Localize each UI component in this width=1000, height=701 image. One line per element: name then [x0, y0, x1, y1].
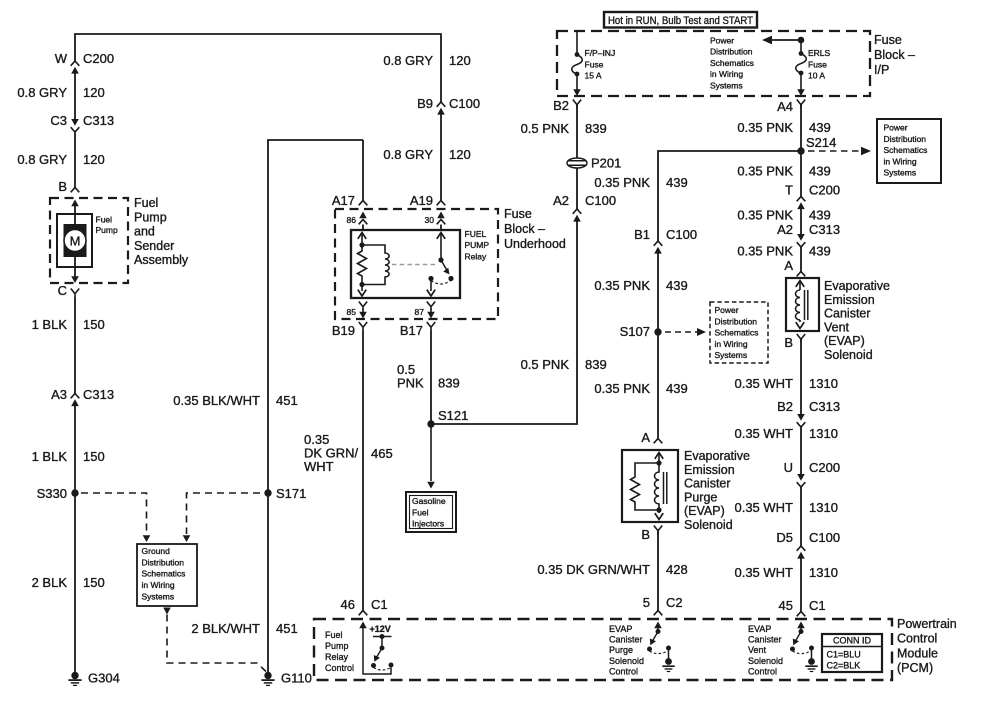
- wire 0.35 WHT 1310 (3): [800, 487, 802, 546]
- vent solenoid coil winding: [796, 290, 801, 320]
- wire into fuel pump motor: [74, 206, 76, 226]
- PCM pin 46 wire to switch: [363, 628, 391, 674]
- relay coil pin 85 arrow: [358, 285, 366, 297]
- svg-text:C3: C3: [50, 113, 67, 128]
- svg-text:10 A: 10 A: [808, 71, 825, 81]
- S214 power distribution text: [884, 123, 928, 178]
- svg-text:CONN ID: CONN ID: [833, 636, 872, 646]
- PCM EVAP purge control text: [609, 624, 644, 676]
- svg-text:Fuse: Fuse: [504, 207, 532, 221]
- svg-text:B2: B2: [553, 98, 569, 113]
- wire 0.8 GRY circuit 120 upper: [74, 73, 76, 121]
- vent solenoid core bars: [805, 290, 808, 320]
- svg-text:A19: A19: [410, 193, 433, 208]
- relay switch travel dashed arc: [431, 281, 451, 285]
- label S107: [620, 324, 650, 339]
- splice S107: [654, 328, 661, 335]
- svg-text:0.35 PNK: 0.35 PNK: [594, 381, 650, 396]
- svg-text:1310: 1310: [809, 426, 838, 441]
- fuel pump and sender assembly title: [134, 196, 189, 267]
- relay switch contact to 87: [428, 276, 433, 281]
- arrow into ground distribution box (left): [143, 535, 151, 542]
- wire 30 to relay: [440, 225, 442, 231]
- connector C313 (B2): [797, 414, 806, 427]
- svg-text:0.35 PNK: 0.35 PNK: [594, 175, 650, 190]
- wire 1 BLK 150 to S330 and G304: [74, 406, 76, 672]
- svg-text:0.35 DK GRN/WHT: 0.35 DK GRN/WHT: [537, 562, 650, 577]
- svg-text:C2: C2: [666, 595, 683, 610]
- EVAP canister vent solenoid box: [786, 278, 819, 331]
- svg-text:45: 45: [779, 598, 793, 613]
- label 0.35 WHT 1310 (2): [734, 426, 837, 441]
- svg-text:Injectors: Injectors: [412, 519, 444, 529]
- svg-text:Systems: Systems: [710, 81, 743, 91]
- svg-text:C1: C1: [371, 597, 388, 612]
- S107 power distribution text: [715, 305, 759, 360]
- label U C200: [784, 460, 840, 475]
- svg-text:Vent: Vent: [824, 320, 850, 334]
- svg-text:in Wiring: in Wiring: [142, 580, 175, 590]
- fuse F/P-INJ 15 A: [572, 31, 583, 90]
- label T C200: [785, 183, 840, 198]
- label 0.35 PNK 439 (c7-4): [737, 244, 830, 259]
- connector B arrow into assembly: [71, 200, 79, 207]
- svg-text:EVAP: EVAP: [748, 624, 771, 634]
- svg-text:Fuse: Fuse: [585, 59, 604, 69]
- wire S214 down to T: [800, 105, 802, 199]
- svg-text:2 BLK/WHT: 2 BLK/WHT: [191, 621, 260, 636]
- svg-text:150: 150: [83, 317, 105, 332]
- connector A flare at vent solenoid: [797, 272, 806, 277]
- svg-text:1310: 1310: [809, 500, 838, 515]
- label B1 C100: [634, 227, 697, 242]
- svg-text:Purge: Purge: [609, 645, 633, 655]
- svg-text:1310: 1310: [809, 376, 838, 391]
- svg-text:C100: C100: [449, 96, 480, 111]
- label 0.5 PNK 839 (top): [521, 121, 607, 136]
- svg-text:C: C: [58, 283, 67, 298]
- relay coil pin 86 arrow: [358, 233, 366, 245]
- svg-text:D5: D5: [776, 530, 793, 545]
- ground distribution schematics box: [137, 544, 197, 606]
- wire P201 to A2 connector: [576, 105, 578, 210]
- svg-text:0.35 PNK: 0.35 PNK: [737, 208, 793, 223]
- connector 45/C1 chevron: [797, 612, 806, 617]
- svg-text:Systems: Systems: [884, 168, 917, 178]
- label 0.8 GRY 120 (top): [383, 53, 470, 68]
- label 2 BLK 150: [32, 575, 105, 590]
- svg-text:G110: G110: [281, 671, 312, 686]
- fuel pump and sender assembly dashed box: [50, 198, 128, 283]
- svg-text:A3: A3: [51, 387, 67, 402]
- label B (vent): [784, 335, 793, 350]
- svg-text:A: A: [784, 258, 793, 273]
- label 0.8 GRY 120 (2): [17, 152, 104, 167]
- label 5 C2: [643, 595, 683, 610]
- wire 0.35 PNK 439 from S214: [658, 151, 801, 241]
- label B9 C100: [417, 96, 480, 111]
- svg-text:C313: C313: [83, 113, 114, 128]
- svg-text:EVAP: EVAP: [609, 624, 632, 634]
- svg-text:0.35 WHT: 0.35 WHT: [734, 426, 793, 441]
- svg-text:439: 439: [666, 175, 688, 190]
- purge solenoid top arrow: [655, 453, 663, 463]
- svg-text:439: 439: [666, 381, 688, 396]
- label A2 C100: [553, 193, 616, 208]
- svg-text:87: 87: [415, 307, 425, 317]
- wire motor to C: [74, 257, 76, 277]
- svg-text:Assembly: Assembly: [134, 253, 189, 267]
- svg-text:(PCM): (PCM): [897, 661, 933, 675]
- wire 0.35 DK GRN/WHT 465: [362, 331, 364, 613]
- svg-text:86: 86: [347, 215, 357, 225]
- svg-text:T: T: [785, 183, 793, 198]
- svg-text:WHT: WHT: [304, 459, 334, 474]
- relay coil winding (parallel inductor): [362, 245, 389, 285]
- PCM EVAP vent control text: [748, 624, 783, 676]
- svg-text:B2: B2: [777, 399, 793, 414]
- EVAP vent solenoid title: [824, 279, 890, 362]
- connector 46/C1 arrow into PCM: [359, 622, 367, 629]
- connector C200 (U): [797, 474, 806, 487]
- svg-text:C1: C1: [809, 598, 826, 613]
- dashed link S171 to ground distribution: [187, 493, 261, 534]
- relay coil top junction: [359, 242, 364, 247]
- svg-text:in Wiring: in Wiring: [715, 339, 748, 349]
- svg-text:0.8 GRY: 0.8 GRY: [17, 85, 67, 100]
- svg-text:Fuse: Fuse: [874, 33, 902, 47]
- svg-text:150: 150: [83, 575, 105, 590]
- svg-text:1 BLK: 1 BLK: [32, 449, 68, 464]
- connector C313 (C3): [71, 119, 80, 132]
- svg-text:Solenoid: Solenoid: [748, 656, 783, 666]
- svg-text:0.35 WHT: 0.35 WHT: [734, 500, 793, 515]
- wire 86 to relay: [362, 225, 364, 231]
- wire 0.8 GRY 120 to fuel pump: [74, 133, 76, 188]
- svg-text:Vent: Vent: [748, 645, 767, 655]
- label 0.35 BLK/WHT 451: [173, 393, 297, 408]
- PCM +12V bar and switch: [371, 634, 394, 670]
- connector B chevron at fuel pump: [71, 188, 80, 193]
- label 0.5 PNK: [397, 362, 424, 391]
- fuel pump relay title: [465, 229, 490, 261]
- svg-text:Evaporative: Evaporative: [824, 279, 890, 293]
- connector 46/C1 chevron: [359, 611, 368, 616]
- svg-text:A17: A17: [332, 193, 355, 208]
- svg-text:B19: B19: [332, 323, 355, 338]
- svg-text:0.35 PNK: 0.35 PNK: [594, 278, 650, 293]
- svg-text:B17: B17: [400, 323, 423, 338]
- svg-text:Solenoid: Solenoid: [609, 656, 644, 666]
- connector C313 (A2): [797, 234, 806, 247]
- svg-text:Fuel: Fuel: [325, 630, 343, 640]
- wire 0.35 DK GRN/WHT 428: [657, 531, 659, 612]
- label S171: [276, 486, 306, 501]
- svg-text:ERLS: ERLS: [808, 48, 831, 58]
- svg-text:Block –: Block –: [504, 222, 545, 236]
- svg-text:C200: C200: [83, 51, 114, 66]
- S107 power distribution dashed box: [710, 302, 768, 363]
- svg-text:Evaporative: Evaporative: [684, 449, 750, 463]
- fuel pump small label: [96, 215, 118, 236]
- svg-text:Canister: Canister: [748, 635, 782, 645]
- connector C100 (A2): [573, 209, 582, 222]
- dashed link S330 to ground distribution: [81, 493, 147, 534]
- pin 85 connector Y: [359, 302, 367, 311]
- pin 87 connector Y: [427, 302, 435, 311]
- label S330: [37, 486, 67, 501]
- svg-text:120: 120: [83, 85, 105, 100]
- svg-text:G304: G304: [88, 671, 120, 686]
- svg-text:Schematics: Schematics: [884, 145, 928, 155]
- fuel pump relay box: [351, 230, 460, 298]
- dashed link ground distribution to G110: [167, 615, 266, 672]
- svg-text:S121: S121: [438, 408, 468, 423]
- svg-text:Fuel: Fuel: [96, 215, 113, 225]
- svg-text:439: 439: [809, 120, 831, 135]
- svg-text:Solenoid: Solenoid: [824, 348, 873, 362]
- svg-text:Schematics: Schematics: [710, 58, 754, 68]
- label 0.35 DK GRN/WHT 428: [537, 562, 687, 577]
- label 0.5 PNK 839 (lower): [521, 357, 607, 372]
- svg-text:PUMP: PUMP: [465, 240, 490, 250]
- label B2: [553, 98, 569, 113]
- svg-text:120: 120: [449, 147, 471, 162]
- svg-text:+12V: +12V: [370, 624, 391, 634]
- connector 5/C2 arrow into PCM: [654, 622, 662, 629]
- svg-text:C1=BLU: C1=BLU: [827, 650, 861, 660]
- svg-text:Schematics: Schematics: [142, 569, 186, 579]
- svg-text:B1: B1: [634, 227, 650, 242]
- fuse F/P-INJ label: [585, 48, 616, 81]
- svg-text:451: 451: [276, 393, 298, 408]
- svg-text:C100: C100: [585, 193, 616, 208]
- connector C313 (A3): [71, 394, 80, 407]
- svg-text:839: 839: [585, 121, 607, 136]
- fuel pump motor M: [64, 224, 87, 257]
- svg-text:Pump: Pump: [325, 641, 349, 651]
- vent solenoid top arrow: [796, 281, 804, 291]
- svg-text:C313: C313: [83, 387, 114, 402]
- svg-text:P201: P201: [591, 156, 621, 171]
- purge solenoid coil winding: [655, 463, 660, 510]
- label 1 BLK 150 (2): [32, 449, 105, 464]
- connector B19 chevron: [359, 322, 367, 331]
- svg-text:Systems: Systems: [142, 591, 175, 601]
- label 0.35 PNK 439 (c6 top): [594, 175, 687, 190]
- svg-text:M: M: [70, 234, 81, 249]
- PCM vent switch: [790, 628, 814, 659]
- svg-text:A2: A2: [553, 193, 569, 208]
- svg-text:0.8 GRY: 0.8 GRY: [383, 53, 433, 68]
- svg-text:Fuel: Fuel: [134, 196, 158, 210]
- svg-text:Canister: Canister: [684, 477, 731, 491]
- wire to A17: [362, 140, 364, 200]
- label 0.35 PNK 439 (c6 mid): [594, 278, 687, 293]
- svg-text:A: A: [641, 430, 650, 445]
- svg-text:0.5 PNK: 0.5 PNK: [521, 121, 570, 136]
- svg-text:Pump: Pump: [134, 210, 167, 224]
- label B: [58, 179, 67, 194]
- label D5 C100: [776, 530, 840, 545]
- svg-text:Underhood: Underhood: [504, 237, 566, 251]
- connector 30 arrow into fuse block: [437, 212, 446, 225]
- svg-text:46: 46: [341, 597, 355, 612]
- connector C200 (T): [797, 197, 806, 210]
- wire T to A2: [800, 209, 802, 234]
- svg-text:0.35 PNK: 0.35 PNK: [737, 244, 793, 259]
- label 0.35 PNK 439 (c7-3): [737, 208, 830, 223]
- relay resistor: [358, 245, 367, 284]
- connector B chevron (purge): [654, 526, 662, 535]
- pin 87 exit arrow: [427, 309, 435, 319]
- svg-text:C100: C100: [666, 227, 697, 242]
- label A (purge): [641, 430, 650, 445]
- label B (purge): [641, 527, 650, 542]
- svg-text:Control: Control: [748, 666, 777, 676]
- relay switch blade: [441, 260, 450, 275]
- svg-text:B: B: [58, 179, 67, 194]
- svg-text:Systems: Systems: [715, 350, 748, 360]
- label A17: [332, 193, 355, 208]
- svg-text:Distribution: Distribution: [884, 134, 927, 144]
- svg-text:Control: Control: [609, 666, 638, 676]
- EVAP canister purge solenoid box: [622, 450, 678, 522]
- label 0.35 PNK 439 (c6 low): [594, 381, 687, 396]
- connector 86 arrow into fuse block: [359, 212, 368, 225]
- svg-text:PNK: PNK: [397, 376, 424, 391]
- svg-text:120: 120: [449, 53, 471, 68]
- label A (vent): [784, 258, 793, 273]
- svg-text:I/P: I/P: [874, 63, 889, 77]
- header box Hot in RUN, Bulb Test and START: [604, 12, 757, 28]
- connector B2 chevron: [573, 100, 581, 109]
- connector A17 chevron: [359, 201, 368, 206]
- svg-text:S107: S107: [620, 324, 650, 339]
- fuse block underhood title: [504, 207, 566, 251]
- svg-text:150: 150: [83, 449, 105, 464]
- svg-text:B: B: [641, 527, 650, 542]
- relay coil bottom junction: [359, 282, 364, 287]
- svg-text:Solenoid: Solenoid: [684, 518, 733, 532]
- splice S171: [264, 489, 271, 496]
- grommet P201: [567, 158, 587, 168]
- svg-text:0.35 BLK/WHT: 0.35 BLK/WHT: [173, 393, 260, 408]
- purge solenoid core bars: [664, 472, 667, 504]
- gasoline fuel injectors text: [412, 496, 446, 529]
- svg-text:Power: Power: [710, 35, 734, 45]
- svg-text:0.8 GRY: 0.8 GRY: [17, 152, 67, 167]
- svg-text:S214: S214: [806, 135, 836, 150]
- svg-text:Fuel: Fuel: [412, 507, 429, 517]
- svg-text:451: 451: [276, 621, 298, 636]
- svg-text:15 A: 15 A: [585, 71, 602, 81]
- svg-text:0.35 PNK: 0.35 PNK: [737, 164, 793, 179]
- label 46 C1: [341, 597, 388, 612]
- svg-text:85: 85: [347, 307, 357, 317]
- label B17: [400, 323, 423, 338]
- arrow down to connector C: [71, 276, 79, 283]
- arrow to power distribution (left) from ERLS feed: [762, 36, 801, 45]
- svg-text:439: 439: [809, 164, 831, 179]
- svg-text:B9: B9: [417, 96, 433, 111]
- svg-text:1310: 1310: [809, 565, 838, 580]
- pin 85 exit arrow: [359, 309, 367, 319]
- connector 45/C1 arrow into PCM: [797, 622, 805, 629]
- wire 0.35 WHT 1310 (1): [800, 340, 802, 415]
- svg-text:Fuse: Fuse: [808, 59, 827, 69]
- label 45 C1: [779, 598, 826, 613]
- splice S121: [427, 420, 434, 427]
- svg-text:and: and: [134, 225, 155, 239]
- fuel pump inner box: [57, 214, 92, 267]
- svg-text:Emission: Emission: [684, 463, 735, 477]
- label 0.8 GRY 120 (4): [383, 147, 470, 162]
- arrow into ground distribution box (right): [183, 535, 191, 542]
- fuse ERLS 10 A: [796, 40, 807, 90]
- PCM purge switch ground: [662, 658, 674, 671]
- svg-text:Control: Control: [325, 663, 354, 673]
- svg-text:Relay: Relay: [465, 251, 487, 261]
- connector A4 exit arrow: [797, 89, 805, 96]
- label A3 C313: [51, 387, 114, 402]
- svg-text:Gasoline: Gasoline: [412, 496, 446, 506]
- svg-text:U: U: [784, 460, 793, 475]
- label 0.8 GRY 120: [17, 85, 104, 100]
- svg-text:0.8 GRY: 0.8 GRY: [383, 147, 433, 162]
- purge solenoid bottom arrow: [655, 510, 663, 520]
- connector C chevron: [71, 289, 79, 298]
- relay switch pin 30: [437, 233, 445, 260]
- svg-text:S330: S330: [37, 486, 67, 501]
- ground distribution schematics text: [142, 546, 186, 601]
- svg-text:Distribution: Distribution: [715, 316, 758, 326]
- svg-text:A2: A2: [777, 222, 793, 237]
- svg-text:0.35 WHT: 0.35 WHT: [734, 565, 793, 580]
- svg-text:Distribution: Distribution: [710, 47, 753, 57]
- ground G304: [68, 672, 81, 686]
- svg-text:Hot in RUN, Bulb Test and STAR: Hot in RUN, Bulb Test and START: [608, 15, 753, 27]
- svg-text:FUEL: FUEL: [465, 229, 487, 239]
- purge solenoid top junction: [656, 460, 661, 465]
- S214 power distribution box: [877, 119, 941, 183]
- wire 0.8 GRY 120 to A19: [440, 115, 442, 201]
- svg-text:C200: C200: [809, 183, 840, 198]
- label W C200: [55, 51, 114, 66]
- svg-text:B: B: [784, 335, 793, 350]
- wire 0.35 BLK/WHT 451: [268, 140, 363, 672]
- connector C200 (W): [71, 61, 80, 74]
- connector A flare at purge solenoid: [654, 439, 663, 444]
- svg-text:0.35 PNK: 0.35 PNK: [737, 120, 793, 135]
- connector A4 chevron: [797, 100, 805, 109]
- connector B chevron (vent): [797, 334, 805, 343]
- label 0.35 WHT 1310 (3): [734, 500, 837, 515]
- svg-text:Canister: Canister: [824, 307, 871, 321]
- junction at ERLS feed: [798, 37, 805, 44]
- svg-text:A4: A4: [777, 99, 793, 114]
- svg-text:839: 839: [585, 357, 607, 372]
- label A2 C313: [777, 222, 840, 237]
- svg-text:C200: C200: [809, 460, 840, 475]
- svg-text:Relay: Relay: [325, 652, 349, 662]
- wire B1 to purge solenoid: [657, 254, 659, 439]
- svg-text:Control: Control: [897, 632, 937, 646]
- svg-text:Ground: Ground: [142, 546, 171, 556]
- fuse block I/P title: [874, 33, 915, 77]
- svg-text:W: W: [55, 51, 68, 66]
- label B2 C313: [777, 399, 840, 414]
